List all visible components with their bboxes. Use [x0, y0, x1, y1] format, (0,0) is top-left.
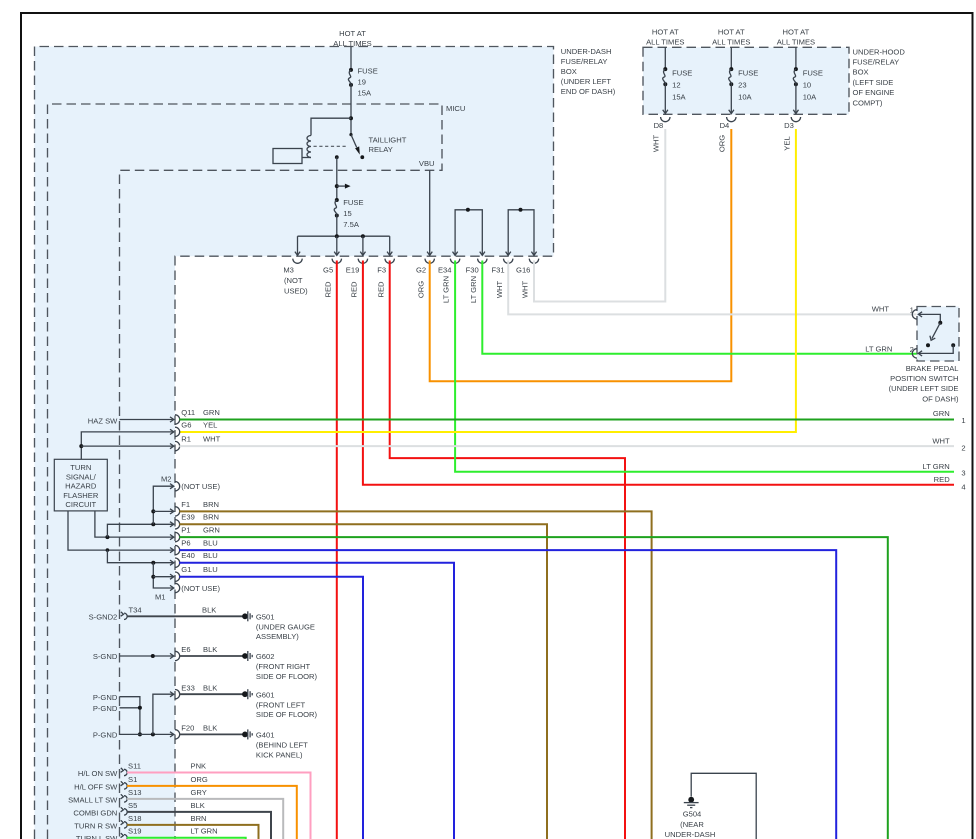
brake pedal position switch dashed outline: [917, 307, 959, 362]
svg-text:HOT AT: HOT AT: [718, 27, 745, 36]
wire from hot feed into fuse 19: [350, 47, 352, 70]
wire GRN from Q11 (circuit 1): [179, 419, 954, 421]
svg-text:10A: 10A: [803, 93, 817, 102]
svg-text:7.5A: 7.5A: [343, 220, 360, 229]
wire RED from E19 (circuit 4): [363, 261, 954, 485]
svg-text:FUSE: FUSE: [803, 69, 823, 78]
svg-text:T34: T34: [129, 605, 142, 614]
wire relay output down to fuse 15: [336, 157, 338, 200]
connector pin F3: [376, 259, 394, 298]
svg-text:E19: E19: [346, 265, 360, 274]
pin R1 labels: [181, 435, 220, 444]
bridge wire pins E34-F30: [455, 210, 482, 255]
connector pin E39 y=524.3: [170, 520, 180, 529]
wire ORG from S1: [127, 786, 297, 839]
svg-text:CIRCUIT: CIRCUIT: [65, 500, 96, 509]
svg-text:ASSEMBLY): ASSEMBLY): [256, 632, 299, 641]
ground G504: [665, 797, 716, 839]
svg-text:SIDE OF FLOOR): SIDE OF FLOOR): [256, 710, 318, 719]
connector pin E6: [170, 645, 217, 661]
svg-text:P6: P6: [181, 539, 190, 548]
svg-text:H/L ON SW: H/L ON SW: [78, 769, 118, 778]
svg-text:19: 19: [358, 78, 366, 87]
connector pin E19: [346, 259, 368, 298]
svg-text:BLK: BLK: [203, 683, 217, 692]
svg-text:FLASHER: FLASHER: [63, 491, 99, 500]
wire BRN from S18: [127, 825, 259, 839]
brake pedal switch caption: [889, 364, 959, 404]
connector pin E34: [438, 259, 460, 303]
wire WHT F31 to brake pedal switch pin 1: [508, 261, 916, 315]
svg-text:RED: RED: [934, 475, 951, 484]
MICU dashed outline: [48, 104, 443, 839]
wire branch to E39: [107, 524, 172, 537]
svg-text:S5: S5: [128, 801, 137, 810]
svg-text:GRN: GRN: [933, 409, 950, 418]
svg-text:P-GND: P-GND: [93, 704, 118, 713]
svg-text:TURN L SW: TURN L SW: [76, 834, 118, 839]
connector pin D4: [718, 117, 736, 152]
ground G602: [242, 651, 317, 681]
fuse 19 15A: [348, 67, 377, 98]
svg-text:SIGNAL/: SIGNAL/: [66, 472, 97, 481]
svg-text:VBU: VBU: [419, 159, 435, 168]
svg-text:LT GRN: LT GRN: [191, 827, 218, 836]
svg-text:M2: M2: [161, 475, 172, 484]
svg-text:(NOT USE): (NOT USE): [181, 584, 220, 593]
connector pin E33: [170, 683, 217, 699]
connector pin D8: [652, 117, 670, 152]
node: relay feed junction: [349, 116, 353, 120]
taillight relay coil: [307, 136, 311, 158]
wire fuse 12 to pin D8: [664, 84, 666, 113]
connector pin T34: [121, 605, 217, 619]
svg-text:G1: G1: [181, 565, 191, 574]
svg-text:D8: D8: [654, 121, 664, 130]
svg-text:E34: E34: [438, 265, 452, 274]
svg-text:ALL TIMES: ALL TIMES: [777, 38, 815, 47]
under-dash fuse/relay box region fill: [35, 47, 554, 839]
under-hood fuse/relay box fill: [643, 47, 849, 114]
svg-text:BLU: BLU: [203, 539, 218, 548]
svg-text:BRN: BRN: [203, 513, 219, 522]
svg-text:GRN: GRN: [203, 526, 220, 535]
svg-text:(UNDER LEFT: (UNDER LEFT: [561, 77, 612, 86]
hot at all times (fuse 19): [333, 29, 371, 48]
svg-text:BRAKE PEDAL: BRAKE PEDAL: [906, 364, 959, 373]
svg-text:P1: P1: [181, 526, 190, 535]
svg-text:BRN: BRN: [191, 814, 207, 823]
svg-text:FUSE: FUSE: [738, 69, 758, 78]
wire BRN from F1: [179, 511, 651, 839]
svg-text:2: 2: [961, 444, 965, 453]
connector pin F20: [170, 724, 217, 740]
hot at all times (fuse 10): [777, 27, 815, 46]
wire bus drop to pin G5: [336, 236, 338, 255]
switch row TURN R SW pin S18: [74, 814, 206, 831]
wire BLU from P6: [179, 550, 836, 839]
svg-text:ALL TIMES: ALL TIMES: [333, 39, 371, 48]
svg-text:KICK PANEL): KICK PANEL): [256, 750, 303, 759]
svg-text:RED: RED: [350, 281, 359, 298]
svg-text:HAZARD: HAZARD: [65, 482, 97, 491]
ground G401: [242, 729, 308, 759]
svg-text:WHT: WHT: [872, 304, 890, 313]
distribution bus: [298, 235, 390, 237]
fuse 10 10A: [793, 47, 823, 101]
svg-text:2: 2: [910, 345, 914, 354]
wire S-GND to E6: [120, 655, 173, 657]
taillight relay switch lever: [349, 133, 352, 136]
connector pin E40 y=562.7: [170, 558, 180, 567]
connector pin F1 y=511.4: [170, 507, 180, 516]
connector pin R1 y=446.1: [170, 441, 180, 450]
wire RED from G5: [336, 261, 338, 839]
svg-text:S-GND: S-GND: [93, 652, 118, 661]
svg-text:ALL TIMES: ALL TIMES: [646, 38, 684, 47]
svg-text:F3: F3: [377, 265, 386, 274]
switch row H/L ON SW pin S11: [78, 762, 206, 779]
svg-text:(LEFT SIDE: (LEFT SIDE: [853, 78, 894, 87]
switch row TURN L SW pin S19: [76, 827, 218, 839]
wire P-GND bus: [120, 697, 140, 735]
svg-text:HOT AT: HOT AT: [339, 29, 366, 38]
svg-text:R1: R1: [181, 435, 191, 444]
svg-text:F20: F20: [181, 724, 194, 733]
svg-text:G5: G5: [323, 265, 333, 274]
fuse 15 7.5A: [334, 198, 363, 229]
svg-text:FUSE/RELAY: FUSE/RELAY: [853, 58, 900, 67]
svg-text:P-GND: P-GND: [93, 693, 118, 702]
svg-text:S19: S19: [128, 827, 142, 836]
VBU wire to pin G2: [429, 170, 431, 255]
svg-text:S13: S13: [128, 788, 142, 797]
svg-text:BOX: BOX: [561, 67, 577, 76]
svg-text:M3: M3: [283, 265, 294, 274]
svg-text:G16: G16: [516, 265, 530, 274]
svg-text:1: 1: [961, 416, 965, 425]
svg-text:BLK: BLK: [202, 605, 216, 614]
relay driver block: [273, 149, 302, 164]
svg-text:RED: RED: [323, 281, 332, 298]
svg-text:ALL TIMES: ALL TIMES: [712, 38, 750, 47]
svg-text:FUSE: FUSE: [672, 69, 692, 78]
wire BLK E33 to G601: [179, 693, 243, 695]
svg-text:BOX: BOX: [853, 68, 869, 77]
wire BLK F20 to G401: [179, 733, 243, 735]
svg-text:(NOT USE): (NOT USE): [181, 482, 220, 491]
wire bus drop to pin M3: [297, 236, 299, 255]
relay mechanical link (dashed): [314, 145, 347, 147]
svg-text:10: 10: [803, 81, 811, 90]
connector pin F30: [466, 259, 487, 303]
svg-text:(FRONT RIGHT: (FRONT RIGHT: [256, 662, 311, 671]
wire to G6: [81, 432, 172, 459]
svg-text:SIDE OF FLOOR): SIDE OF FLOOR): [256, 672, 318, 681]
svg-text:(UNDER LEFT SIDE: (UNDER LEFT SIDE: [889, 384, 959, 393]
connector pin M-row y=588: [170, 583, 180, 592]
svg-text:G602: G602: [256, 652, 275, 661]
under-hood box caption: [853, 47, 906, 107]
svg-text:ORG: ORG: [718, 135, 727, 152]
svg-text:WHT: WHT: [203, 435, 221, 444]
svg-text:FUSE/RELAY: FUSE/RELAY: [561, 57, 608, 66]
connector pin G6 y=431.9: [170, 427, 180, 436]
brake pedal position switch box fill: [917, 307, 959, 362]
svg-text:(UNDER GAUGE: (UNDER GAUGE: [256, 623, 315, 632]
pin E39 labels: [181, 513, 219, 522]
svg-text:E40: E40: [181, 551, 195, 560]
wire P-GND row to F20: [120, 733, 173, 735]
svg-text:FUSE: FUSE: [343, 198, 363, 207]
wire GRY from S13: [127, 799, 283, 839]
svg-text:D3: D3: [784, 121, 794, 130]
svg-text:COMPT): COMPT): [853, 98, 883, 107]
svg-text:HOT AT: HOT AT: [652, 27, 679, 36]
svg-text:F31: F31: [492, 265, 505, 274]
svg-text:15A: 15A: [358, 89, 372, 98]
svg-text:YEL: YEL: [782, 136, 791, 150]
under-dash box caption: [561, 47, 616, 96]
wire bus drop to pin E19: [362, 236, 364, 255]
connector pin D3: [782, 117, 800, 151]
wire LT GRN from S19: [127, 838, 246, 839]
pin G1 labels: [181, 565, 217, 574]
svg-text:WHT: WHT: [495, 280, 504, 298]
wire bus drop to pin F3: [389, 236, 391, 255]
svg-text:H/L OFF SW: H/L OFF SW: [74, 782, 118, 791]
svg-text:4: 4: [961, 482, 965, 491]
svg-text:BLK: BLK: [203, 645, 217, 654]
svg-text:S1: S1: [128, 775, 137, 784]
svg-text:TAILLIGHT: TAILLIGHT: [369, 136, 407, 145]
svg-text:Q11: Q11: [181, 408, 195, 417]
connector pin G2: [416, 259, 434, 299]
svg-text:GRY: GRY: [191, 788, 207, 797]
wire ORG G2 to D4: [430, 129, 732, 381]
svg-text:P-GND: P-GND: [93, 731, 118, 740]
wire BLK T34 to G501: [127, 615, 243, 617]
svg-text:15: 15: [343, 209, 351, 218]
wire BLK E6 to G602: [179, 655, 243, 657]
svg-text:OF DASH): OF DASH): [922, 394, 959, 403]
svg-text:M1: M1: [155, 592, 166, 601]
brake pedal switch pin 1: [872, 304, 922, 319]
svg-text:POSITION SWITCH: POSITION SWITCH: [890, 374, 958, 383]
pin P1 labels: [181, 526, 220, 535]
wire BLK from S5: [127, 812, 271, 839]
svg-text:HOT AT: HOT AT: [783, 27, 810, 36]
wire branch to E40: [107, 550, 172, 563]
svg-text:F30: F30: [466, 265, 479, 274]
connector pin G1 y=576.7: [170, 572, 180, 581]
wire BLU from G1: [179, 577, 363, 839]
svg-text:E33: E33: [181, 683, 195, 692]
wire box to P6: [68, 511, 173, 550]
svg-text:MICU: MICU: [446, 104, 465, 113]
branch arrow to other circuit: [337, 185, 346, 187]
connector pin M3: [283, 259, 302, 275]
pin G6 labels: [181, 420, 217, 429]
svg-text:BLK: BLK: [203, 724, 217, 733]
connector pin G16: [516, 259, 539, 299]
svg-text:USED): USED): [284, 286, 308, 295]
svg-text:HAZ SW: HAZ SW: [88, 416, 118, 425]
wire PNK from S11: [127, 773, 311, 839]
wire fuse 19 to relay: [350, 85, 352, 135]
connector pin P6 y=550.1: [170, 545, 180, 554]
svg-text:F1: F1: [181, 500, 190, 509]
svg-text:FUSE: FUSE: [358, 67, 378, 76]
under-hood fuse/relay box dashed outline: [643, 47, 849, 114]
svg-text:E39: E39: [181, 513, 195, 522]
pin M3 note: [284, 276, 308, 295]
svg-text:(BEHIND LEFT: (BEHIND LEFT: [256, 741, 308, 750]
svg-text:BLK: BLK: [191, 801, 205, 810]
svg-text:12: 12: [672, 81, 680, 90]
hot at all times (fuse 23): [712, 27, 750, 46]
connector pin M-row y=486.2: [170, 482, 180, 491]
svg-text:(NOT: (NOT: [284, 276, 303, 285]
svg-text:WHT: WHT: [932, 437, 950, 446]
wire BLU from E40: [179, 563, 454, 839]
wire branch to G1 and M1: [153, 563, 172, 588]
svg-text:RED: RED: [376, 281, 385, 298]
wire branch to F1 and M2: [153, 486, 172, 524]
svg-text:E6: E6: [181, 645, 190, 654]
svg-text:S11: S11: [128, 762, 141, 771]
bridge wire pins F31-G16: [508, 210, 534, 255]
switch row SMALL LT SW pin S13: [68, 788, 207, 805]
svg-text:OF ENGINE: OF ENGINE: [853, 88, 895, 97]
relay fixed contact (right, open): [360, 155, 364, 159]
wire HAZ SW to Q11: [120, 419, 173, 421]
wire to R1: [81, 445, 172, 447]
fuse 23 10A: [729, 47, 759, 101]
wire box to P1: [95, 511, 173, 537]
under-dash fuse/relay box dashed outline: [35, 47, 554, 839]
svg-text:ORG: ORG: [191, 775, 208, 784]
wire BRN from E39: [179, 524, 547, 839]
wire branch to relay coil: [311, 118, 351, 135]
svg-text:WHT: WHT: [521, 280, 530, 298]
connector pin Q11 y=419.5: [170, 415, 180, 424]
connector pin P1 y=537.1: [170, 532, 180, 541]
svg-text:UNDER-DASH: UNDER-DASH: [665, 830, 716, 839]
wire coil to relay driver block: [302, 157, 311, 159]
fuse 12 15A: [663, 47, 693, 101]
svg-text:1: 1: [910, 305, 914, 314]
svg-text:LT GRN: LT GRN: [469, 276, 478, 303]
svg-text:3: 3: [961, 469, 965, 478]
wire LT GRN F30 to brake pedal switch pin 2: [482, 261, 916, 354]
wire to ground G504: [691, 773, 756, 839]
switch row H/L OFF SW pin S1: [74, 775, 208, 792]
connector pin G5: [323, 259, 341, 298]
svg-text:G401: G401: [256, 731, 275, 740]
pin E40 labels: [181, 551, 217, 560]
relay output contact: [335, 155, 339, 159]
ground G601: [242, 689, 317, 719]
svg-text:LT GRN: LT GRN: [923, 462, 950, 471]
wire RED from F3: [390, 261, 625, 839]
svg-text:G501: G501: [256, 613, 275, 622]
svg-text:ORG: ORG: [416, 281, 425, 298]
svg-text:(NEAR: (NEAR: [680, 820, 704, 829]
node R1 tap: [79, 444, 83, 448]
wire fuse 15 to distribution bus: [336, 216, 338, 237]
switch row COMBI GDN pin S5: [73, 801, 204, 818]
wire LT GRN from E34 (circuit 3): [455, 261, 954, 472]
taillight relay label: [369, 136, 407, 155]
svg-text:G504: G504: [683, 809, 702, 818]
svg-text:LT GRN: LT GRN: [865, 345, 892, 354]
svg-text:G2: G2: [416, 265, 426, 274]
svg-text:SMALL LT SW: SMALL LT SW: [68, 795, 118, 804]
connector pin F31: [492, 259, 513, 299]
node: branch to other circuit: [335, 184, 339, 188]
svg-text:WHT: WHT: [652, 134, 661, 152]
svg-text:S-GND2: S-GND2: [89, 613, 118, 622]
svg-text:TURN: TURN: [70, 463, 91, 472]
svg-text:BLU: BLU: [203, 551, 218, 560]
wire branch to E33: [153, 694, 173, 734]
svg-text:BLU: BLU: [203, 565, 218, 574]
wire fuse 10 to pin D3: [795, 84, 797, 113]
svg-text:UNDER-HOOD: UNDER-HOOD: [853, 47, 906, 56]
svg-text:G6: G6: [181, 420, 191, 429]
svg-text:TURN R SW: TURN R SW: [74, 821, 118, 830]
svg-text:(FRONT LEFT: (FRONT LEFT: [256, 700, 306, 709]
hot at all times (fuse 12): [646, 27, 684, 46]
svg-text:END OF DASH): END OF DASH): [561, 87, 616, 96]
wire GRN from P1: [179, 537, 888, 839]
svg-text:LT GRN: LT GRN: [442, 276, 451, 303]
svg-text:S18: S18: [128, 814, 142, 823]
wire WHT from R1 (circuit 2): [179, 445, 954, 447]
svg-text:YEL: YEL: [203, 420, 217, 429]
brake pedal switch pin 2: [865, 345, 922, 358]
svg-text:D4: D4: [720, 121, 730, 130]
wire fuse 23 to pin D4: [730, 84, 732, 113]
svg-text:UNDER-DASH: UNDER-DASH: [561, 47, 612, 56]
svg-text:G601: G601: [256, 690, 275, 699]
brake pedal switch internals: [919, 314, 941, 322]
ground G501: [242, 611, 315, 641]
svg-text:23: 23: [738, 81, 746, 90]
wire WHT G16 to D8: [534, 129, 665, 302]
svg-text:GRN: GRN: [203, 408, 220, 417]
turn signal / hazard flasher circuit box: [54, 459, 107, 511]
svg-text:PNK: PNK: [191, 762, 207, 771]
svg-text:COMBI GDN: COMBI GDN: [73, 808, 117, 817]
pin P6 labels: [181, 539, 217, 548]
svg-text:15A: 15A: [672, 93, 686, 102]
pin Q11 labels: [181, 408, 220, 417]
svg-text:RELAY: RELAY: [369, 145, 393, 154]
pin F1 labels: [181, 500, 219, 509]
wire YEL D3 to G6: [179, 129, 796, 432]
svg-text:BRN: BRN: [203, 500, 219, 509]
svg-text:10A: 10A: [738, 93, 752, 102]
